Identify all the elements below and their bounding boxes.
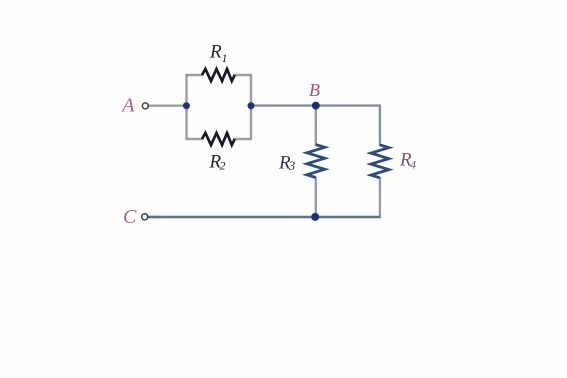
wire R4 branch lower segment [379, 177, 381, 218]
wire R3 branch upper segment [315, 106, 317, 146]
wire parallel block left vertical [185, 74, 187, 140]
wire dark lead at terminal C [148, 216, 164, 218]
svg-text:R: R [209, 42, 222, 63]
wire block top left segment [186, 74, 204, 76]
resistor R1 [202, 69, 235, 81]
wire parallel block right vertical [250, 74, 252, 140]
node B [312, 102, 320, 110]
svg-text:B: B [309, 80, 320, 100]
node at right of parallel block [248, 102, 255, 109]
svg-text:3: 3 [288, 158, 296, 173]
wire R3 branch lower segment [315, 177, 317, 218]
wire from terminal A to left node [149, 104, 188, 106]
wire bottom from terminal C to bottom-right corner [149, 216, 380, 218]
svg-text:C: C [123, 206, 137, 228]
node bottom junction [311, 213, 319, 221]
svg-text:1: 1 [222, 51, 228, 65]
wire right node to B and to top-right corner [251, 106, 380, 146]
svg-text:A: A [120, 95, 135, 117]
terminal C open circle [142, 214, 148, 220]
wire block bottom left segment [186, 138, 204, 140]
resistor R4 [371, 145, 389, 178]
resistor R2 [202, 133, 235, 145]
wire block bottom right segment [233, 138, 252, 140]
terminal A open circle [142, 103, 148, 109]
svg-text:4: 4 [410, 158, 416, 172]
node at left of parallel block [183, 102, 190, 109]
resistor R3 [307, 145, 325, 178]
svg-text:2: 2 [220, 159, 226, 173]
wire block top right segment [233, 74, 252, 76]
